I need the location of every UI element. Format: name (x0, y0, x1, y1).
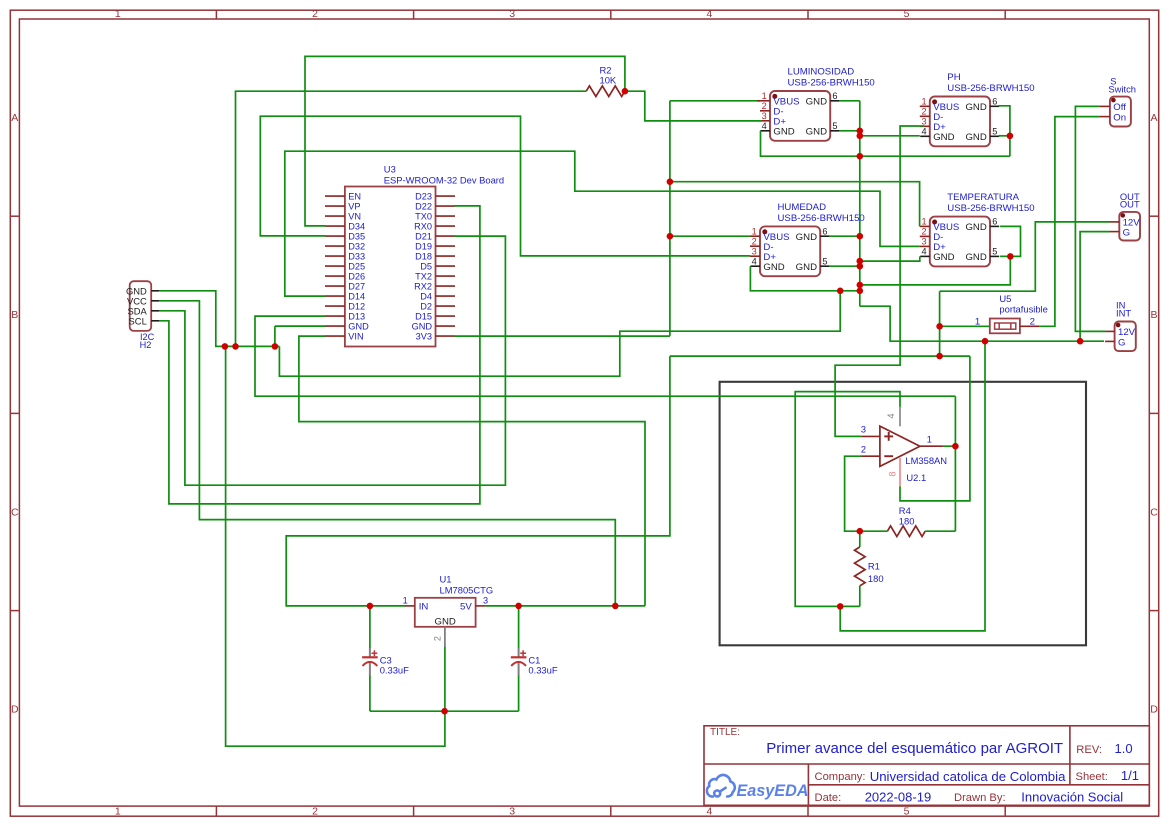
svg-text:LM7805CTG: LM7805CTG (440, 584, 494, 595)
svg-text:USB-256-BRWH150: USB-256-BRWH150 (947, 203, 1034, 214)
svg-text:D35: D35 (348, 232, 365, 242)
svg-text:A: A (1150, 112, 1157, 124)
wire R2 to GND rail (236, 91, 587, 346)
svg-text:D13: D13 (348, 312, 365, 322)
svg-text:5: 5 (904, 8, 910, 20)
wire 5V to I2C VCC (159, 301, 615, 606)
wire op-amp output (943, 445, 956, 447)
svg-text:U1: U1 (440, 573, 452, 584)
resistor R1 (855, 547, 866, 586)
svg-text:1: 1 (921, 217, 926, 227)
svg-text:3: 3 (509, 805, 515, 817)
junction (612, 603, 619, 610)
wire 12V main horizontal (670, 355, 970, 357)
svg-text:Primer avance del esquemático: Primer avance del esquemático par AGROIT (766, 740, 1063, 757)
svg-text:Innovación Social: Innovación Social (1021, 790, 1123, 805)
svg-text:1: 1 (115, 805, 121, 817)
capacitor C1 0.33uF (511, 647, 527, 676)
svg-text:GND: GND (965, 132, 986, 143)
junction (952, 443, 959, 450)
svg-text:PH: PH (947, 72, 960, 83)
junction (667, 233, 674, 240)
svg-text:U2.1: U2.1 (906, 472, 926, 483)
svg-text:5V: 5V (460, 602, 472, 613)
wire 12V switch On to fuse (1040, 117, 1100, 327)
wire GND HUMEDAD pin5 (829, 265, 860, 267)
wire 12V branch vertical (939, 291, 941, 356)
wire GND ESP U3 pin (275, 325, 325, 327)
wire C3 leads (369, 676, 371, 711)
junction (622, 88, 629, 95)
wire D35 to HUMEDAD D+ (260, 116, 750, 256)
svg-text:REV:: REV: (1076, 744, 1102, 756)
label C3 value 0.33uF (380, 655, 409, 676)
svg-text:2022-08-19: 2022-08-19 (865, 790, 932, 805)
svg-text:GND: GND (435, 617, 456, 628)
wire GND rail jog (279, 291, 840, 376)
wire C3 leads (369, 606, 371, 648)
svg-text:D27: D27 (348, 282, 365, 292)
svg-text:6: 6 (822, 226, 827, 236)
svg-text:D12: D12 (348, 302, 365, 312)
svg-text:ESP-WROOM-32 Dev Board: ESP-WROOM-32 Dev Board (384, 175, 504, 186)
svg-text:4: 4 (921, 127, 926, 137)
svg-text:A: A (11, 112, 18, 124)
junction (515, 603, 522, 610)
svg-text:3V3: 3V3 (416, 332, 432, 342)
wire op-amp output (954, 396, 956, 531)
svg-text:TX2: TX2 (415, 272, 432, 282)
wire GND TEMPERATURA pin6 (1000, 226, 1020, 256)
svg-text:5: 5 (832, 121, 837, 131)
svg-text:Date:: Date: (815, 792, 842, 804)
svg-text:D2: D2 (420, 302, 432, 312)
svg-text:USB-256-BRWH150: USB-256-BRWH150 (947, 83, 1034, 94)
fuse holder U5 portafusible (975, 293, 1048, 333)
wire GND TEMPERATURA pin5 drop (860, 256, 1011, 285)
junction (222, 343, 229, 350)
junction (272, 343, 279, 350)
svg-text:180: 180 (868, 573, 884, 584)
svg-text:GND: GND (965, 222, 986, 233)
junction (1007, 253, 1014, 260)
wire GND PH pin5 (999, 135, 1010, 137)
connector OUT (1110, 191, 1140, 241)
svg-text:GND: GND (796, 262, 817, 273)
wire 12V to op-amp pin8 (900, 356, 970, 501)
svg-text:1: 1 (921, 97, 926, 107)
wire 3V3 HUMEDAD VBUS (670, 235, 750, 237)
svg-text:LM358AN: LM358AN (905, 455, 947, 466)
module PH USB-256-BRWH150 (920, 72, 1035, 146)
svg-text:U3: U3 (384, 164, 396, 175)
svg-text:R4: R4 (899, 505, 911, 516)
wire GND LUMINOSIDAD pin5 (839, 130, 860, 132)
svg-text:TITLE:: TITLE: (710, 727, 740, 738)
analog section outline box (720, 382, 1086, 646)
svg-text:10K: 10K (600, 75, 617, 86)
svg-text:2: 2 (752, 236, 757, 246)
svg-text:GND: GND (965, 252, 986, 263)
label R2 value 10K (600, 64, 617, 85)
svg-text:3: 3 (861, 424, 866, 434)
junction (232, 343, 239, 350)
svg-text:Switch: Switch (1108, 84, 1136, 95)
svg-text:3: 3 (509, 8, 515, 20)
svg-text:VP: VP (348, 202, 360, 212)
svg-text:2: 2 (861, 444, 866, 454)
regulator U1 LM7805CTG (403, 573, 493, 647)
svg-text:GND: GND (806, 97, 827, 108)
svg-text:D22: D22 (415, 202, 432, 212)
svg-text:3: 3 (483, 596, 488, 606)
wire R2 to LUMINOSIDAD D+ (625, 91, 762, 121)
wire GND bus vertical (859, 101, 861, 306)
svg-text:5: 5 (904, 805, 910, 817)
svg-text:Universidad catolica de Colomb: Universidad catolica de Colombia (870, 769, 1066, 784)
svg-text:4: 4 (752, 256, 757, 266)
svg-text:RX2: RX2 (414, 282, 432, 292)
svg-text:G: G (1118, 337, 1125, 348)
op-amp U2.1 LM358AN (861, 407, 947, 487)
wire GND PH pin6 (999, 106, 1010, 156)
svg-text:GND: GND (348, 322, 369, 332)
svg-text:TX0: TX0 (415, 212, 432, 222)
wire 3V3 vertical (669, 101, 671, 336)
wire 5V U1 out (485, 605, 645, 607)
svg-text:USB-256-BRWH150: USB-256-BRWH150 (778, 213, 865, 224)
wire D34 to R2 (305, 56, 625, 226)
svg-text:SCL: SCL (129, 315, 147, 326)
wire GND LUMINOSIDAD pin4 (761, 131, 1010, 156)
wire GND U1 pin2 down (444, 647, 446, 711)
svg-text:GND: GND (965, 102, 986, 113)
svg-text:C: C (11, 506, 19, 518)
wire 12V to OUT (940, 222, 1110, 291)
svg-text:OUT: OUT (1120, 199, 1140, 210)
wire GND to IN G (860, 306, 1104, 341)
svg-text:4: 4 (706, 805, 712, 817)
svg-text:TEMPERATURA: TEMPERATURA (947, 192, 1019, 203)
wire 3V3 LUMINOSIDAD VBUS (670, 100, 760, 102)
svg-text:D21: D21 (415, 232, 432, 242)
IC U3 ESP-WROOM-32 Dev Board (325, 164, 504, 347)
svg-text:1: 1 (115, 8, 121, 20)
wire GND TEMPERATURA pin4 (860, 256, 920, 261)
module LUMINOSIDAD USB-256-BRWH150 (760, 66, 875, 140)
svg-text:GND: GND (796, 232, 817, 243)
switch S (1100, 75, 1136, 126)
wire R4 leads (925, 530, 955, 532)
wire GND ESP U3 pin (274, 326, 276, 346)
svg-text:3: 3 (921, 237, 926, 247)
svg-text:D: D (11, 704, 19, 716)
junction (367, 603, 374, 610)
wire 12V switch Off to IN (1075, 106, 1105, 331)
svg-text:D4: D4 (420, 292, 432, 302)
svg-text:GND: GND (933, 252, 954, 263)
svg-text:2: 2 (433, 636, 443, 641)
svg-text:D15: D15 (415, 312, 432, 322)
svg-text:C: C (1150, 506, 1158, 518)
wire 3V3 to TEMPERATURA VBUS (670, 182, 920, 227)
svg-text:EN: EN (348, 192, 361, 202)
svg-text:6: 6 (832, 91, 837, 101)
svg-text:D5: D5 (420, 262, 432, 272)
wire GND caps bottom (370, 710, 519, 712)
svg-text:2: 2 (921, 227, 926, 237)
wire 3V3 ESP (454, 335, 670, 337)
svg-text:D14: D14 (348, 292, 365, 302)
svg-text:GND: GND (763, 262, 784, 273)
wire R1 leads (859, 586, 861, 607)
wire GND HUMEDAD pin6 (829, 235, 860, 237)
junction (857, 153, 864, 160)
title block (704, 726, 1149, 806)
svg-text:180: 180 (899, 516, 915, 527)
svg-text:5: 5 (822, 256, 827, 266)
svg-text:On: On (1113, 112, 1126, 123)
junction (441, 708, 448, 715)
svg-text:4: 4 (921, 247, 926, 257)
svg-text:2: 2 (762, 101, 767, 111)
junction (857, 233, 864, 240)
svg-text:D: D (1150, 704, 1158, 716)
wire PH D+ to op-amp (835, 126, 920, 436)
svg-text:6: 6 (992, 217, 997, 227)
junction (1077, 338, 1084, 345)
wire op-amp pin4 loop (795, 392, 900, 607)
label R1 value 180 (868, 561, 884, 584)
wire op-amp inverting input (845, 456, 862, 531)
svg-text:GND: GND (412, 322, 433, 332)
svg-text:1: 1 (762, 91, 767, 101)
junction (857, 282, 864, 289)
svg-text:H2: H2 (140, 340, 152, 350)
svg-text:G: G (1123, 228, 1130, 239)
svg-text:GND: GND (933, 132, 954, 143)
wire R1 leads (859, 531, 861, 547)
EasyEDA logo (707, 775, 809, 800)
svg-text:D26: D26 (348, 272, 365, 282)
svg-text:4: 4 (762, 121, 767, 131)
svg-text:D33: D33 (348, 252, 365, 262)
junction (857, 133, 864, 140)
wire D13 to op-amp output (255, 316, 955, 396)
svg-text:portafusible: portafusible (999, 304, 1047, 315)
junction (857, 528, 864, 535)
svg-text:Drawn By:: Drawn By: (954, 792, 1006, 804)
svg-text:D32: D32 (348, 242, 365, 252)
junction (837, 288, 844, 295)
svg-text:2: 2 (1030, 317, 1035, 328)
wire R4 leads (860, 530, 888, 532)
junction (982, 338, 989, 345)
svg-text:D19: D19 (415, 242, 432, 252)
svg-text:HUMEDAD: HUMEDAD (778, 202, 827, 213)
junction (837, 603, 844, 610)
svg-text:8: 8 (887, 471, 897, 476)
svg-text:GND: GND (773, 127, 794, 138)
wire GND LUMINOSIDAD pin6 (839, 100, 860, 102)
wire C1 leads (518, 606, 520, 648)
wire GND OUT G (1080, 232, 1110, 342)
svg-text:EasyEDA: EasyEDA (737, 782, 809, 800)
svg-text:IN: IN (419, 602, 429, 613)
svg-text:VN: VN (348, 212, 361, 222)
svg-text:0.33uF: 0.33uF (528, 664, 557, 675)
svg-text:1: 1 (927, 435, 932, 445)
svg-text:R1: R1 (868, 561, 880, 572)
module TEMPERATURA USB-256-BRWH150 (920, 192, 1035, 266)
svg-text:1: 1 (752, 226, 757, 236)
label C1 value 0.33uF (528, 655, 557, 676)
module HUMEDAD USB-256-BRWH150 (750, 202, 865, 276)
wire D14 to TEMPERATURA D+ (285, 151, 920, 296)
svg-text:USB-256-BRWH150: USB-256-BRWH150 (788, 78, 875, 89)
resistor R2 (586, 86, 625, 97)
wire C1 leads (518, 676, 520, 711)
wire SDA to D21 (159, 236, 505, 485)
wire GND PH pin4 (860, 135, 920, 137)
svg-text:3: 3 (752, 246, 757, 256)
connector IN INT (1105, 300, 1136, 351)
svg-text:0.33uF: 0.33uF (380, 664, 409, 675)
junction (936, 353, 943, 360)
svg-text:D34: D34 (348, 222, 365, 232)
svg-text:1.0: 1.0 (1115, 741, 1133, 756)
wire 12V fuse pin1 (940, 325, 990, 327)
junction (667, 178, 674, 185)
svg-text:VIN: VIN (348, 332, 363, 342)
junction (857, 263, 864, 270)
junction (857, 258, 864, 265)
svg-text:2: 2 (312, 8, 318, 20)
svg-text:6: 6 (992, 97, 997, 107)
svg-text:4: 4 (886, 413, 896, 418)
wire GND U1 bottom (226, 346, 445, 746)
label R4 value 180 (899, 505, 915, 527)
svg-text:B: B (1150, 309, 1157, 321)
wire 5V to ESP VIN (299, 336, 645, 606)
junction (857, 128, 864, 135)
svg-text:INT: INT (1116, 307, 1131, 318)
wire 12V to U1 IN (286, 356, 670, 606)
wire PH D+ stub link (920, 125, 924, 127)
svg-text:2: 2 (312, 805, 318, 817)
svg-text:3: 3 (921, 117, 926, 127)
svg-text:3: 3 (762, 111, 767, 121)
pin stub LUMINOSIDAD pin1 lead (757, 100, 760, 102)
svg-text:1/1: 1/1 (1121, 768, 1139, 783)
wire GND I2C to rail (159, 291, 279, 347)
svg-text:Company:: Company: (815, 771, 866, 783)
junction (857, 288, 864, 295)
wire SCL to D22 (159, 206, 480, 504)
svg-text:D18: D18 (415, 252, 432, 262)
capacitor C3 0.33uF (362, 647, 378, 676)
svg-text:4: 4 (706, 8, 712, 20)
svg-text:D25: D25 (348, 262, 365, 272)
wire GND HUMEDAD pin4 (750, 266, 859, 291)
svg-text:D23: D23 (415, 192, 432, 202)
svg-text:B: B (11, 309, 18, 321)
svg-text:2: 2 (921, 107, 926, 117)
svg-text:1: 1 (403, 596, 408, 606)
svg-text:Sheet:: Sheet: (1076, 771, 1108, 783)
junction (936, 323, 943, 330)
connector H2 I2C header (126, 281, 159, 350)
wire R1 to IN G net (840, 341, 985, 631)
resistor R4 (887, 526, 925, 537)
svg-text:LUMINOSIDAD: LUMINOSIDAD (788, 66, 855, 77)
svg-text:RX0: RX0 (414, 222, 432, 232)
junction (1007, 133, 1014, 140)
svg-text:5: 5 (992, 247, 997, 257)
svg-text:GND: GND (806, 127, 827, 138)
svg-text:5: 5 (992, 127, 997, 137)
